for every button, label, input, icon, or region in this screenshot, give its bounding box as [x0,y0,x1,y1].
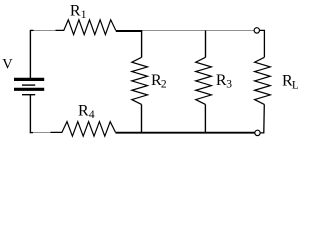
wire : bottom-left horizontal (gray) from battery to R4 [33,132,51,134]
wire : R3 bottom vertical [204,104,206,133]
wire : top circle to RL corner [260,30,265,57]
svg-text:R: R [78,102,89,119]
svg-text:2: 2 [161,79,167,91]
svg-text:1: 1 [81,9,87,21]
resistor R3 : vertical zigzag [196,57,212,104]
battery V : short thin plate 1 [22,84,35,86]
battery V : long thick plate 2 [14,88,44,91]
battery V : short thin plate 2 [22,94,35,96]
wire : top, R2 junction to terminal (gray) [142,30,254,32]
wire : top, R1 to R2 junction (black) [116,30,142,32]
wire : battery negative plate down to bottom wire [29,95,31,134]
terminal : bottom-right open circle [255,130,260,135]
wire : R3 top vertical [205,30,207,57]
svg-text:4: 4 [89,109,95,121]
terminal : top-right open circle [254,28,259,33]
node A : top-left corner at battery positive [30,29,34,31]
svg-text:L: L [292,79,298,91]
battery V : top wire down to positive plate [29,30,31,78]
battery V : long thick plate 1 [14,78,44,81]
resistor R1 : zigzag in top wire [56,20,116,35]
svg-text:R: R [70,3,81,20]
svg-text:V: V [2,57,13,73]
resistor R4 : zigzag in bottom wire [51,122,116,137]
wire : R2 bottom vertical [141,104,143,133]
resistor RL : vertical zigzag right side [255,57,271,104]
wire : RL bottom lead down to bottom-right corner [260,104,264,132]
svg-text:3: 3 [226,79,232,91]
wire : top-left horizontal (gray) from battery to R1 [34,30,56,32]
node B : bottom-left corner stub [30,132,33,134]
wire : R2 top vertical [141,30,143,57]
wire : bottom, R4 to bottom-right terminal (black) [116,132,255,134]
resistor R2 : vertical zigzag [132,57,148,104]
